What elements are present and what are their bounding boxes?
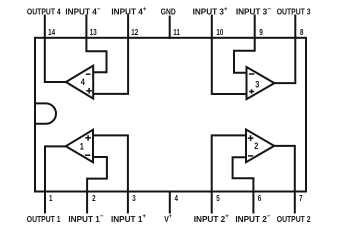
svg-text:5: 5 (216, 193, 219, 203)
svg-text:6: 6 (258, 193, 261, 203)
svg-text:INPUT 3+: INPUT 3+ (193, 6, 228, 17)
svg-text:8: 8 (300, 27, 303, 37)
svg-text:12: 12 (131, 27, 138, 37)
svg-text:9: 9 (259, 27, 262, 37)
svg-text:4: 4 (175, 193, 179, 203)
svg-text:V+: V+ (164, 214, 172, 224)
svg-text:3: 3 (255, 78, 259, 89)
svg-text:1: 1 (80, 141, 84, 152)
svg-text:INPUT 4+: INPUT 4+ (111, 6, 146, 17)
svg-text:10: 10 (216, 27, 223, 37)
svg-text:OUTPUT 4: OUTPUT 4 (27, 7, 62, 17)
svg-text:OUTPUT 2: OUTPUT 2 (277, 214, 311, 224)
svg-text:OUTPUT 1: OUTPUT 1 (27, 214, 61, 224)
svg-text:INPUT 2+: INPUT 2+ (194, 213, 229, 224)
svg-text:GND: GND (161, 7, 176, 17)
svg-text:INPUT 1−: INPUT 1− (68, 213, 103, 224)
svg-text:3: 3 (132, 193, 135, 203)
svg-text:INPUT 1+: INPUT 1+ (111, 213, 146, 224)
svg-text:INPUT 2−: INPUT 2− (235, 213, 270, 224)
svg-text:INPUT 3−: INPUT 3− (236, 6, 271, 17)
svg-text:2: 2 (254, 140, 258, 151)
svg-text:OUTPUT 3: OUTPUT 3 (277, 7, 311, 17)
svg-text:4: 4 (81, 76, 85, 87)
svg-text:13: 13 (90, 27, 97, 37)
svg-text:14: 14 (48, 27, 56, 37)
svg-text:1: 1 (49, 193, 52, 203)
svg-text:2: 2 (92, 193, 95, 203)
svg-text:7: 7 (299, 193, 302, 203)
svg-text:11: 11 (173, 27, 180, 37)
svg-text:INPUT 4−: INPUT 4− (65, 6, 100, 17)
